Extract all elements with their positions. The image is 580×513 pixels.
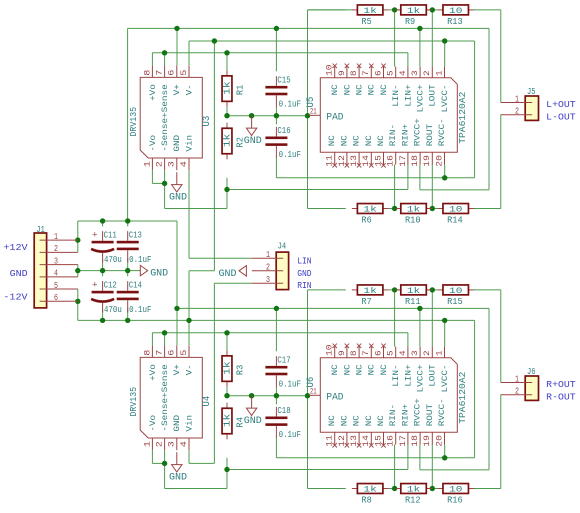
junction ROUT/R10-R14: [430, 206, 435, 211]
svg-text:1: 1: [142, 161, 152, 167]
svg-text:U5: U5: [306, 97, 317, 108]
svg-text:6: 6: [167, 350, 177, 356]
wire -12V top rail: [189, 40, 475, 42]
svg-text:19: 19: [422, 435, 432, 447]
wire U3 Vin down: [188, 170, 190, 258]
wire C14 top link: [127, 271, 129, 277]
resistor R6 1k: [352, 204, 389, 226]
svg-text:1: 1: [515, 94, 519, 104]
wire -Vo up to R4: [226, 470, 228, 489]
svg-text:DRV135: DRV135: [129, 387, 139, 417]
svg-text:1: 1: [434, 350, 444, 356]
wire U4 V- drop: [188, 320, 190, 345]
wire C11 top link: [102, 221, 104, 226]
svg-text:1k: 1k: [407, 6, 420, 16]
wire J1 pins 1-2 tie: [77, 221, 79, 252]
wire U3 -Vo link: [151, 170, 153, 183]
connector J5: [501, 87, 539, 121]
svg-text:1: 1: [434, 70, 444, 76]
svg-text:16: 16: [386, 155, 396, 167]
junction LOUT/R11: [430, 287, 435, 292]
svg-text:3: 3: [54, 256, 58, 266]
wire LIN- drop lower: [394, 290, 396, 347]
svg-text:20: 20: [434, 435, 444, 447]
svg-text:NC: NC: [356, 364, 365, 375]
wire RIN- drop lower: [394, 445, 396, 489]
wire ROUT drop lower: [431, 445, 433, 489]
svg-text:C17: C17: [277, 355, 290, 366]
svg-text:NC: NC: [331, 364, 340, 375]
svg-text:GND: GND: [244, 136, 262, 147]
wire ROUT drop: [431, 165, 433, 209]
junction J1 -12V: [75, 299, 80, 304]
svg-text:LIN+: LIN+: [404, 84, 413, 107]
junction -12V/C12: [100, 318, 105, 323]
junction +12V/U3 V+: [174, 26, 179, 31]
svg-text:11: 11: [325, 435, 335, 447]
svg-text:NC: NC: [365, 415, 374, 426]
wire +12V left riser: [127, 28, 129, 221]
svg-text:-Sense: -Sense: [161, 398, 170, 432]
junction -12V/U6 LVCC-: [442, 318, 447, 323]
svg-text:NC: NC: [377, 415, 386, 426]
svg-text:R3: R3: [235, 365, 245, 375]
svg-text:17: 17: [398, 155, 408, 167]
wire GND rail U5: [227, 115, 309, 117]
svg-text:LVCC-: LVCC-: [441, 364, 450, 392]
wire R7 feed: [308, 289, 346, 291]
svg-text:7: 7: [361, 350, 371, 356]
wire +12V lower rail: [177, 307, 489, 309]
svg-text:6: 6: [167, 70, 177, 76]
svg-text:1: 1: [142, 441, 152, 447]
junction +12V/LVCC+: [417, 26, 422, 31]
wire C18 -12V rail: [276, 457, 474, 459]
svg-text:2: 2: [54, 244, 58, 254]
svg-text:1k: 1k: [407, 485, 420, 495]
wire J6 pin1 riser: [500, 290, 502, 383]
svg-text:R9: R9: [405, 17, 415, 27]
svg-text:1k: 1k: [363, 286, 376, 296]
svg-text:0.1uF: 0.1uF: [279, 98, 302, 109]
svg-text:1: 1: [54, 232, 58, 242]
svg-text:J1: J1: [36, 225, 45, 235]
wire C17 bottom link: [275, 388, 277, 396]
junction +Vo/R1: [224, 50, 229, 55]
wire R1 bottom link: [226, 107, 228, 117]
svg-text:GND: GND: [244, 416, 262, 427]
resistor R16 10: [437, 484, 474, 506]
junction GND sym tap: [249, 113, 254, 118]
junction GND/R5 node: [392, 7, 397, 12]
capacitor C14 0.1uF: [117, 280, 152, 316]
wire -Vo across: [165, 208, 227, 210]
junction -12V/U4 V-: [186, 318, 191, 323]
wire -12V mid rail: [78, 319, 475, 321]
svg-text:RVCC-: RVCC-: [438, 118, 447, 146]
resistor R15 10: [437, 285, 474, 307]
svg-text:NC: NC: [365, 135, 374, 146]
wire J1 pins 3-4 tie: [77, 265, 79, 277]
svg-text:GND: GND: [10, 268, 28, 279]
resistor R11 1k: [395, 285, 432, 307]
svg-text:L+OUT: L+OUT: [546, 99, 576, 110]
wire R5 feed: [308, 9, 346, 11]
wire LIN across: [189, 257, 252, 259]
svg-text:9: 9: [337, 70, 347, 76]
svg-text:TPA6120A2: TPA6120A2: [458, 372, 468, 424]
wire U5 LVCC- drop: [444, 41, 446, 67]
wire LOUT drop: [431, 10, 433, 67]
svg-text:10: 10: [325, 64, 335, 76]
svg-text:R7: R7: [362, 297, 372, 307]
svg-text:2: 2: [266, 263, 270, 273]
svg-text:LIN+: LIN+: [404, 364, 413, 387]
junction GND/riser lower: [305, 393, 310, 398]
svg-text:R12: R12: [405, 495, 421, 505]
capacitor C13 0.1uF: [117, 230, 152, 266]
connector J1: [34, 225, 78, 308]
svg-text:0.1uF: 0.1uF: [279, 378, 302, 389]
svg-text:1k: 1k: [363, 6, 376, 16]
svg-text:NC: NC: [368, 84, 377, 95]
svg-text:12: 12: [337, 435, 347, 447]
wire +12V lower right riser: [488, 308, 490, 470]
wire U4 +Vo drop: [151, 333, 153, 346]
wire J1 +12V rail: [78, 220, 177, 222]
svg-text:C16: C16: [277, 125, 290, 136]
svg-text:1: 1: [515, 374, 519, 384]
wire +12V to U5 RVCC+: [420, 189, 489, 191]
svg-text:LOUT: LOUT: [429, 364, 438, 387]
svg-text:RIN: RIN: [297, 281, 311, 291]
svg-text:-Vo: -Vo: [149, 415, 158, 432]
wire C13 bottom link: [127, 258, 129, 271]
amplifier U6 TPA6120A2: [306, 344, 468, 448]
svg-text:470u: 470u: [104, 254, 122, 265]
svg-text:3: 3: [410, 350, 420, 356]
wire R16 to J6: [474, 488, 501, 490]
junction RIN-/R8-R12: [392, 486, 397, 491]
wire C18 bottom link: [275, 438, 277, 458]
wire U6 RIN+ drop: [407, 445, 409, 470]
wire -12V lower right riser: [474, 320, 476, 457]
svg-text:LOUT: LOUT: [429, 84, 438, 107]
svg-text:U4: U4: [202, 396, 213, 407]
wire J6 pin2 riser: [500, 395, 502, 489]
svg-text:1k: 1k: [363, 485, 376, 495]
svg-text:L-OUT: L-OUT: [546, 111, 576, 122]
ground symbol at J4: [219, 266, 247, 280]
op-amp U4 DRV135: [129, 346, 213, 451]
svg-text:7: 7: [154, 70, 164, 76]
wire R9-R13 link: [426, 9, 437, 11]
svg-text:PAD: PAD: [326, 112, 343, 123]
wire U3 -Sense link: [164, 170, 166, 183]
wire -Vo rail lower: [227, 469, 408, 471]
svg-text:LIN-: LIN-: [392, 364, 401, 386]
capacitor C15 0.1uF: [265, 75, 301, 110]
svg-text:1k: 1k: [223, 81, 233, 95]
svg-text:4: 4: [179, 441, 189, 447]
svg-text:RVCC-: RVCC-: [438, 398, 447, 426]
wire +Vo rail: [152, 52, 408, 54]
wire R10-R14 link: [426, 208, 437, 210]
svg-text:RVCC+: RVCC+: [414, 118, 423, 146]
junction -Vo/-Sense: [162, 181, 167, 186]
resistor R8 1k: [352, 484, 389, 506]
svg-text:15: 15: [373, 155, 383, 167]
svg-text:J6: J6: [527, 367, 536, 377]
svg-text:NC: NC: [328, 415, 337, 426]
svg-text:10: 10: [449, 205, 462, 215]
wire R14 to J5: [474, 208, 501, 210]
wire U5 LIN+ drop: [407, 53, 409, 67]
wire RIN across: [214, 282, 251, 284]
wire C11 bottom link: [102, 260, 104, 271]
capacitor C11 470u: [91, 230, 122, 266]
wire J1 GND rail: [78, 270, 141, 272]
wire R2 bottom link: [226, 178, 228, 190]
junction -12V/jog: [212, 38, 217, 43]
ground symbol at J1: [140, 265, 168, 279]
svg-text:LVCC-: LVCC-: [441, 84, 450, 112]
svg-text:2: 2: [515, 387, 519, 397]
connector J4: [252, 242, 289, 290]
junction GND/R3-R4: [224, 393, 229, 398]
svg-text:1k: 1k: [223, 361, 233, 375]
svg-text:R11: R11: [405, 297, 421, 307]
svg-text:C13: C13: [129, 230, 142, 241]
svg-text:NC: NC: [343, 84, 352, 95]
svg-text:2: 2: [154, 441, 164, 447]
wire R8 feed: [308, 488, 346, 490]
wire -12V jog down 2: [188, 271, 190, 346]
junction J1 pin1: [75, 237, 80, 242]
wire U3 +Sense drop: [164, 53, 166, 66]
wire U6 RVCC+ drop: [419, 445, 421, 470]
wire -Vo up to R2: [226, 190, 228, 209]
resistor R14 10: [437, 204, 474, 226]
svg-text:R6: R6: [362, 215, 372, 225]
wire C16 -12V rail: [276, 177, 474, 179]
svg-text:1k: 1k: [407, 286, 420, 296]
svg-text:GND: GND: [173, 415, 182, 432]
wire +Vo rail lower: [152, 332, 408, 334]
svg-text:3: 3: [167, 441, 177, 447]
junction GND/R1-R2: [224, 113, 229, 118]
wire +12V to C17: [275, 308, 277, 351]
svg-text:V+: V+: [173, 364, 182, 375]
svg-text:2: 2: [422, 70, 432, 76]
resistor R12 1k: [395, 484, 432, 506]
svg-text:5: 5: [179, 350, 189, 356]
svg-text:+: +: [92, 281, 97, 291]
svg-text:ROUT: ROUT: [426, 404, 435, 427]
svg-text:+Vo: +Vo: [149, 364, 158, 381]
svg-text:R1: R1: [235, 85, 245, 95]
wire R6 feed: [308, 208, 346, 210]
wire R11-R15 link: [426, 289, 437, 291]
svg-text:R+OUT: R+OUT: [546, 379, 576, 390]
wire U6 RVCC- drop: [444, 445, 446, 458]
wire R3 top link: [226, 333, 228, 351]
connector J6: [501, 367, 539, 401]
svg-text:R5: R5: [362, 17, 372, 27]
wire -Vo tie: [152, 182, 164, 184]
svg-text:C11: C11: [104, 230, 117, 241]
wire J5 pin2 riser: [500, 115, 502, 209]
wire C12 bottom link: [102, 310, 104, 321]
capacitor C18 0.1uF: [265, 405, 301, 440]
junction +12V/C13: [125, 218, 130, 223]
svg-text:Vin: Vin: [185, 415, 194, 432]
svg-text:6: 6: [373, 350, 383, 356]
svg-text:0.1uF: 0.1uF: [129, 304, 152, 315]
wire GND riser top: [307, 10, 309, 209]
svg-text:8: 8: [349, 350, 359, 356]
junction ROUT/R12-R16: [430, 486, 435, 491]
svg-text:19: 19: [422, 155, 432, 167]
svg-text:4: 4: [54, 269, 58, 279]
svg-text:GND: GND: [297, 269, 311, 279]
wire U4 Vin link: [188, 450, 190, 463]
wire R1 top link: [226, 53, 228, 71]
wire R4 bottom link: [226, 458, 228, 470]
svg-text:ROUT: ROUT: [426, 124, 435, 147]
wire +12V to C15: [275, 28, 277, 71]
svg-text:5: 5: [54, 281, 58, 291]
junction -Vo/R2: [224, 187, 229, 192]
wire -12V to U3 V-: [188, 41, 190, 66]
wire C12 top link: [102, 271, 104, 277]
svg-text:10: 10: [325, 344, 335, 356]
wire +12V to U3 V+: [176, 28, 178, 65]
wire RIN down: [213, 283, 215, 463]
wire GND riser bottom: [307, 290, 309, 489]
svg-text:U6: U6: [306, 377, 317, 388]
svg-text:0.1uF: 0.1uF: [129, 254, 152, 265]
svg-text:13: 13: [349, 435, 359, 447]
svg-text:7: 7: [154, 350, 164, 356]
wire C18 top link: [275, 396, 277, 405]
wire U4 -Vo link: [151, 450, 153, 463]
svg-text:7: 7: [361, 70, 371, 76]
wire -12V right riser: [474, 41, 476, 178]
svg-text:R-OUT: R-OUT: [546, 391, 576, 402]
svg-text:470u: 470u: [104, 304, 122, 315]
svg-text:GND: GND: [173, 135, 182, 152]
svg-text:C18: C18: [277, 405, 290, 416]
wire -Vo tie lower: [152, 462, 164, 464]
svg-text:V-: V-: [185, 84, 194, 95]
svg-text:6: 6: [373, 70, 383, 76]
resistor R5 1k: [352, 5, 389, 27]
svg-text:5: 5: [179, 70, 189, 76]
svg-text:J4: J4: [278, 242, 287, 252]
svg-text:C12: C12: [104, 280, 117, 291]
wire J5 pin1 riser: [500, 10, 502, 103]
resistor R2 1k: [222, 123, 245, 160]
svg-text:U3: U3: [202, 116, 213, 127]
svg-text:R16: R16: [447, 495, 463, 505]
svg-text:5: 5: [386, 70, 396, 76]
svg-text:10: 10: [449, 286, 462, 296]
resistor R1 1k: [222, 70, 245, 107]
svg-text:1: 1: [266, 250, 270, 260]
resistor R3 1k: [222, 350, 245, 387]
svg-text:17: 17: [398, 435, 408, 447]
junction +12V/C15: [274, 26, 279, 31]
junction GND/C11: [100, 268, 105, 273]
svg-text:-Vo: -Vo: [149, 135, 158, 152]
svg-text:1k: 1k: [223, 134, 233, 148]
wire U4 +Sense drop: [164, 333, 166, 346]
svg-text:20: 20: [434, 155, 444, 167]
wire U5 RVCC+ drop: [419, 165, 421, 190]
svg-text:10: 10: [449, 6, 462, 16]
wire +12V to U6 RVCC+: [420, 469, 489, 471]
svg-text:DRV135: DRV135: [129, 107, 139, 137]
ground symbol near R4: [244, 396, 262, 427]
svg-text:10: 10: [449, 485, 462, 495]
wire R15 to J6: [474, 289, 501, 291]
svg-text:0.1uF: 0.1uF: [279, 149, 302, 160]
junction -12V/LVCC-: [442, 38, 447, 43]
wire U5 RVCC- drop: [444, 165, 446, 178]
junction GND/riser: [305, 113, 310, 118]
junction GND/C17-C18: [274, 393, 279, 398]
svg-text:RIN-: RIN-: [389, 404, 398, 426]
svg-text:V-: V-: [185, 364, 194, 375]
svg-text:NC: NC: [343, 364, 352, 375]
svg-text:NC: NC: [331, 84, 340, 95]
svg-text:LVCC+: LVCC+: [417, 364, 426, 392]
svg-text:NC: NC: [340, 415, 349, 426]
resistor R10 1k: [395, 204, 432, 226]
svg-text:8: 8: [142, 350, 152, 356]
svg-text:R14: R14: [447, 215, 463, 225]
svg-text:NC: NC: [380, 84, 389, 95]
wire -Vo across lower: [165, 488, 227, 490]
junction LOUT/R9: [430, 7, 435, 12]
svg-text:14: 14: [361, 155, 371, 167]
svg-text:3: 3: [167, 161, 177, 167]
svg-text:V+: V+: [173, 84, 182, 95]
junction GND/C15-C16: [274, 113, 279, 118]
wire C14 bottom link: [127, 308, 129, 321]
wire R8-R12 link: [389, 488, 401, 490]
ground symbol under U3: [169, 172, 187, 203]
svg-text:12: 12: [337, 155, 347, 167]
junction -12V/C14: [125, 318, 130, 323]
svg-text:TPA6120A2: TPA6120A2: [458, 92, 468, 144]
wire -12V jog down: [213, 41, 215, 271]
svg-text:11: 11: [325, 155, 335, 167]
op-amp U3 DRV135: [129, 66, 213, 171]
junction +Vo/+Sense: [162, 50, 167, 55]
svg-text:4: 4: [398, 350, 408, 356]
capacitor C16 0.1uF: [265, 125, 301, 160]
svg-text:R15: R15: [447, 297, 463, 307]
junction +12V/C17: [274, 306, 279, 311]
svg-text:+12V: +12V: [3, 242, 28, 253]
svg-text:8: 8: [349, 70, 359, 76]
wire -Vo down: [164, 183, 166, 208]
svg-text:GND: GND: [219, 268, 237, 280]
svg-text:9: 9: [337, 350, 347, 356]
resistor R9 1k: [395, 5, 432, 27]
